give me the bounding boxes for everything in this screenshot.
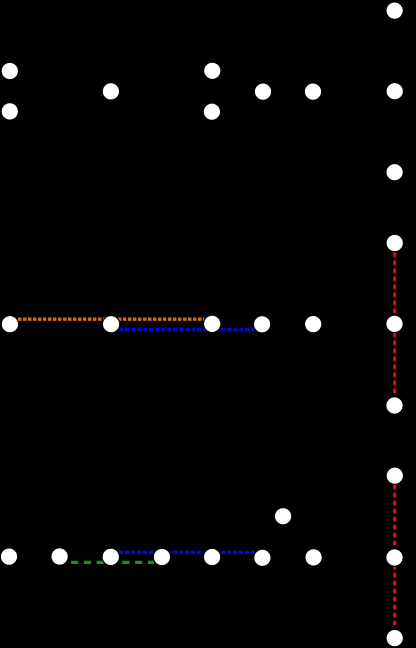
node R1 [387,3,403,19]
node A2 [2,103,18,119]
node A6 [255,84,271,100]
node B5 [305,316,321,332]
node D3 [102,548,121,567]
node B1 [2,316,18,332]
node D7 [306,549,322,565]
node R9 [387,630,403,646]
edge red R7-R9 [393,485,396,627]
node A5 [204,104,220,120]
node D4 [153,548,172,567]
node A4 [204,63,220,79]
node R4 [387,235,403,251]
node B3 [203,315,222,334]
node C1 [275,508,291,524]
node R8 [385,548,404,567]
node A1 [2,63,18,79]
node R5 [385,315,404,334]
edge red R4-R6 [393,253,396,395]
node R6 [386,397,402,413]
node B4 [254,316,270,332]
edge orange B1-B3 [18,318,204,321]
node R2 [387,83,403,99]
node D6 [254,550,270,566]
node R7 [387,468,403,484]
node D1 [1,549,17,565]
edge green D2-D4 [71,561,154,564]
edge blue D3-D6 [119,551,254,554]
node R3 [387,164,403,180]
node A7 [305,84,321,100]
node B2 [102,315,121,334]
node A3 [103,83,119,99]
node D2 [52,548,68,564]
edge blue B2-B4 [119,328,254,331]
node D5 [203,548,222,567]
